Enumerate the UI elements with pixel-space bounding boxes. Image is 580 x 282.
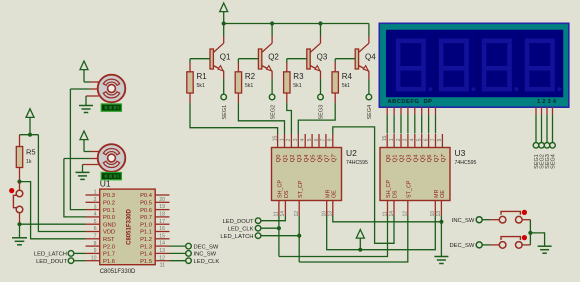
svg-text:Q5: Q5: [311, 155, 317, 163]
svg-text:P1.4: P1.4: [140, 252, 153, 258]
svg-text:U3: U3: [455, 148, 466, 158]
svg-text:ST_CP: ST_CP: [406, 180, 412, 198]
svg-text:Q3: Q3: [317, 53, 328, 62]
button DEC_SW: [482, 235, 530, 248]
svg-text:R2: R2: [245, 72, 256, 81]
resistor R2 5k1: [235, 72, 255, 103]
terminal INC_SW right: [452, 217, 482, 224]
svg-text:Q0: Q0: [276, 155, 282, 163]
svg-text:OE: OE: [440, 190, 446, 198]
terminal LED_DOUT mid: [223, 218, 261, 225]
svg-text:ABCDEFG DP: ABCDEFG DP: [388, 99, 433, 105]
svg-text:P1.7: P1.7: [103, 252, 115, 258]
wire INC_SW to P1.4: [170, 252, 186, 254]
svg-text:Q1: Q1: [393, 155, 399, 163]
transistor Q3: [307, 24, 328, 80]
svg-text:6: 6: [94, 226, 97, 232]
svg-text:MR: MR: [434, 190, 440, 198]
svg-text:Q3: Q3: [297, 155, 303, 163]
svg-text:2: 2: [94, 197, 97, 203]
terminal SEG1 top: [221, 94, 228, 119]
svg-text:P0.1: P0.1: [103, 208, 115, 214]
motor bottom +88.8: [80, 131, 125, 172]
svg-text:3: 3: [293, 138, 299, 141]
svg-text:C8051F330D: C8051F330D: [100, 269, 136, 275]
svg-text:5: 5: [417, 138, 423, 141]
ground OE net: [434, 257, 448, 264]
resistor R1 5k1: [187, 72, 207, 103]
terminal LED_CLK mid: [228, 225, 261, 232]
svg-text:P0.0: P0.0: [103, 215, 115, 221]
svg-text:5k1: 5k1: [293, 83, 301, 89]
resistor R3 5k1: [284, 72, 304, 103]
svg-text:Q3: Q3: [407, 155, 413, 163]
ground left: [12, 238, 27, 245]
wire R2 to U2 Q1: [238, 103, 284, 134]
svg-text:R3: R3: [293, 72, 304, 81]
svg-text:9: 9: [94, 248, 97, 254]
svg-text:P0.5: P0.5: [140, 201, 152, 207]
ground buttons: [538, 246, 552, 253]
wire Q1 collector to SEG1: [223, 79, 225, 94]
svg-text:1: 1: [94, 190, 97, 196]
terminal SEG4 top: [366, 94, 373, 119]
wire Q3 base to R3: [287, 59, 307, 72]
svg-text:P1.0: P1.0: [140, 222, 152, 228]
junction R5-button: [17, 180, 21, 184]
svg-text:P2.0: P2.0: [103, 244, 115, 250]
svg-text:P1.1: P1.1: [140, 230, 152, 236]
svg-text:LED_CLK: LED_CLK: [194, 259, 220, 265]
button RESET: [9, 182, 23, 225]
svg-text:SEG1: SEG1: [222, 105, 228, 120]
wire LED_CLK to U2 U3 SH_CP: [261, 216, 388, 257]
terminal SEG3 top: [318, 94, 325, 119]
motor bottom rpm display: [101, 173, 121, 180]
transistor Q4: [355, 24, 376, 80]
terminal SEG2 right: [539, 143, 546, 169]
junction bus-Q3: [318, 21, 322, 25]
svg-text:7: 7: [321, 138, 327, 141]
svg-text:R4: R4: [342, 72, 353, 81]
svg-text:8: 8: [94, 241, 97, 247]
svg-text:U2: U2: [346, 148, 357, 158]
svg-text:LED_DOUT: LED_DOUT: [223, 219, 254, 225]
svg-text:R1: R1: [197, 72, 208, 81]
wire LED_LATCH to P1.7: [74, 252, 86, 254]
svg-text:P1.6: P1.6: [103, 259, 115, 265]
svg-text:5k1: 5k1: [197, 83, 205, 89]
svg-text:1234: 1234: [537, 99, 557, 105]
svg-text:Q5: Q5: [420, 155, 426, 163]
svg-text:C8051F330D: C8051F330D: [127, 208, 133, 244]
shift register U3 74HC595: [380, 134, 477, 217]
svg-text:Q7': Q7': [331, 153, 337, 162]
svg-text:P0.7: P0.7: [140, 215, 152, 221]
display 7SEG-MPX4 blue module: [379, 23, 569, 107]
svg-text:SH_CP: SH_CP: [386, 180, 392, 198]
svg-text:2: 2: [286, 138, 292, 141]
wire LED_CLK to P1.5: [170, 260, 186, 262]
wire DEC_SW to P1.3: [170, 245, 186, 247]
wire buttons common: [528, 220, 544, 246]
svg-text:9: 9: [437, 138, 443, 141]
resistor R4 5k1: [332, 72, 352, 103]
display segment pins A-DP wires to U3: [387, 107, 435, 133]
terminal LED_LATCH mid: [220, 233, 260, 240]
svg-text:9: 9: [328, 138, 334, 141]
wire VCC bus: [224, 23, 369, 25]
svg-text:1k: 1k: [26, 159, 32, 165]
transistor Q1: [210, 24, 231, 80]
svg-text:P1.2: P1.2: [140, 237, 152, 243]
svg-text:74HC595: 74HC595: [455, 160, 477, 166]
svg-text:7: 7: [94, 234, 97, 240]
wire VCC split: [20, 133, 39, 147]
svg-text:Q6: Q6: [427, 155, 433, 163]
svg-text:Q4: Q4: [304, 154, 310, 163]
svg-text:Q4: Q4: [413, 154, 419, 163]
svg-text:P0.6: P0.6: [140, 208, 152, 214]
svg-text:SEG4: SEG4: [551, 154, 557, 169]
power terminal MR net: [356, 230, 364, 250]
svg-text:1: 1: [389, 138, 395, 141]
transistor Q2: [258, 24, 279, 80]
svg-text:Q2: Q2: [290, 155, 296, 163]
MCU U1 C8051F330D: [86, 179, 170, 275]
svg-text:3: 3: [403, 138, 409, 141]
wire Q4 base to R4: [335, 59, 355, 72]
svg-text:P0.3: P0.3: [103, 193, 115, 199]
junction bus-Q2: [270, 21, 274, 25]
shift register U2 74HC595: [272, 134, 369, 217]
wire OE net to ground: [333, 216, 444, 257]
svg-text:15: 15: [382, 136, 388, 142]
svg-text:5: 5: [307, 138, 313, 141]
svg-text:11: 11: [160, 263, 165, 269]
svg-text:Q7: Q7: [325, 155, 331, 163]
svg-text:SH_CP: SH_CP: [278, 180, 284, 198]
svg-text:INC_SW: INC_SW: [194, 252, 217, 258]
power terminal VCC top: [220, 3, 228, 24]
svg-text:LED_LATCH: LED_LATCH: [220, 234, 253, 240]
svg-text:SEG3: SEG3: [319, 105, 325, 120]
svg-text:RST: RST: [103, 237, 115, 243]
svg-text:10: 10: [91, 255, 97, 261]
wire button to ground: [19, 224, 21, 238]
svg-text:P1.5: P1.5: [140, 259, 152, 265]
ground motor top: [79, 106, 93, 113]
svg-text:SEG4: SEG4: [367, 105, 373, 120]
svg-text:Q0: Q0: [386, 155, 392, 163]
svg-text:Q2: Q2: [268, 53, 279, 62]
terminal SEG1 right: [533, 143, 540, 169]
wire U2 Q7' to U3 DS: [333, 127, 394, 243]
junction bus-Q1: [222, 21, 226, 25]
wire R4 to U2 Q3: [298, 103, 335, 134]
svg-text:7: 7: [430, 138, 436, 141]
resistor R5 1k: [16, 147, 35, 182]
svg-text:Q7: Q7: [434, 155, 440, 163]
wire Q3 collector to SEG3: [320, 79, 322, 94]
wire LED_LATCH to U2 U3 ST_CP: [261, 216, 408, 263]
svg-text:4: 4: [94, 212, 97, 218]
svg-text:LED_DOUT: LED_DOUT: [36, 259, 67, 265]
svg-text:P0.2: P0.2: [103, 201, 115, 207]
svg-text:Q2: Q2: [400, 155, 406, 163]
svg-text:OE: OE: [331, 190, 337, 198]
svg-text:15: 15: [272, 136, 278, 142]
svg-text:5k1: 5k1: [245, 83, 253, 89]
svg-text:U1: U1: [100, 179, 111, 189]
svg-text:DS: DS: [284, 190, 290, 198]
wire R1 to U2 Q0: [190, 103, 278, 134]
wire R3 to U2 Q2: [287, 103, 292, 134]
terminal LED_CLK u1: [186, 258, 220, 265]
svg-text:LED_CLK: LED_CLK: [228, 227, 254, 233]
svg-text:SEG2: SEG2: [270, 105, 276, 120]
wire motor top to U1 P0.1: [70, 89, 90, 210]
svg-text:Q4: Q4: [365, 53, 376, 62]
motor top +88.8: [80, 61, 125, 105]
ground motor bottom: [76, 172, 90, 179]
wire LED_DOUT to U2 DS: [261, 216, 286, 221]
svg-text:2: 2: [396, 138, 402, 141]
svg-text:ST_CP: ST_CP: [298, 180, 304, 198]
wire LED_DOUT to P1.6: [74, 260, 86, 262]
wire Q4 collector to SEG4: [368, 79, 370, 94]
button INC_SW: [482, 210, 530, 223]
svg-text:Q6: Q6: [318, 155, 324, 163]
junction button-gnd: [17, 222, 21, 226]
wire MR net: [327, 216, 436, 252]
svg-text:LED_LATCH: LED_LATCH: [34, 252, 67, 258]
svg-text:6: 6: [423, 138, 429, 141]
svg-text:GND: GND: [103, 222, 116, 228]
display digit pins 1-4 wires: [536, 107, 553, 142]
wire Q2 collector to SEG2: [271, 79, 273, 94]
svg-text:5: 5: [94, 219, 97, 225]
svg-text:1: 1: [279, 138, 285, 141]
svg-text:DEC_SW: DEC_SW: [449, 243, 474, 249]
svg-text:DEC_SW: DEC_SW: [194, 244, 219, 250]
svg-text:74HC595: 74HC595: [346, 160, 368, 166]
terminal SEG3 right: [544, 143, 551, 169]
svg-text:Q1: Q1: [220, 53, 231, 62]
wire Q1 base to R1: [190, 59, 210, 72]
terminal SEG2 top: [269, 94, 276, 119]
svg-text:4: 4: [410, 138, 416, 141]
terminal LED_LATCH left: [34, 251, 74, 258]
svg-text:Q1: Q1: [283, 155, 289, 163]
svg-text:VDD: VDD: [103, 230, 115, 236]
terminal INC_SW u1: [186, 251, 217, 258]
svg-text:P0.4: P0.4: [140, 193, 153, 199]
power terminal left VCC: [26, 109, 34, 135]
wire GND net to U1: [20, 223, 86, 225]
svg-text:R5: R5: [26, 148, 36, 157]
svg-text:DS: DS: [393, 190, 399, 198]
terminal DEC_SW u1: [186, 243, 219, 250]
terminal LED_DOUT left: [36, 258, 74, 265]
svg-text:INC_SW: INC_SW: [452, 218, 475, 224]
svg-text:MR: MR: [325, 190, 331, 198]
wire VDD net: [38, 135, 85, 232]
wire RST net: [20, 182, 86, 239]
svg-text:4: 4: [300, 138, 306, 141]
motor top rpm display: [101, 104, 121, 111]
wire motor bottom to U1 P0.0: [64, 159, 90, 217]
svg-text:6: 6: [314, 138, 320, 141]
terminal SEG4 right: [550, 143, 557, 169]
svg-text:3: 3: [94, 204, 97, 210]
terminal DEC_SW right: [449, 242, 482, 249]
svg-text:5k1: 5k1: [342, 83, 350, 89]
svg-text:P1.3: P1.3: [140, 244, 152, 250]
wire Q2 base to R2: [238, 59, 258, 72]
svg-text:Q7': Q7': [441, 153, 447, 162]
